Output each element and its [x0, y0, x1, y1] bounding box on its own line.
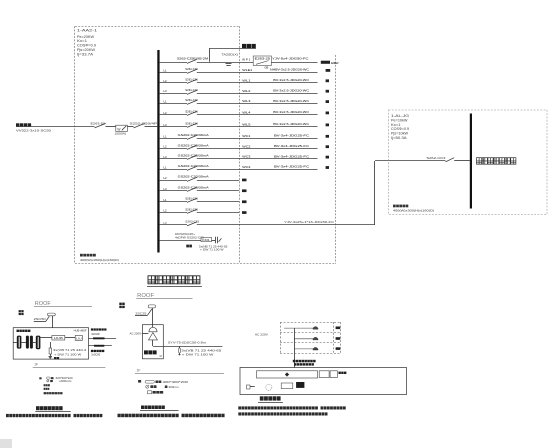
- svg-text:HUB+MDF: HUB+MDF: [74, 328, 87, 332]
- svg-text:12.3kW: 12.3kW: [331, 61, 339, 65]
- circuit row WC3: [160, 154, 329, 160]
- svg-text:Ij=33.7A: Ij=33.7A: [77, 52, 94, 56]
- svg-text:S261-C16: S261-C16: [185, 67, 198, 71]
- circuit row spare@180: [160, 175, 247, 182]
- svg-text:Ij=50.3A: Ij=50.3A: [391, 136, 407, 140]
- landscape busbar: [470, 114, 472, 209]
- camera 3: [294, 347, 340, 350]
- wire modules to HUB: [40, 337, 52, 339]
- svg-text:3xSC80: 3xSC80: [91, 352, 100, 356]
- subscriber tap: [179, 346, 181, 348]
- svg-text:S252-C50/4P: S252-C50/4P: [130, 121, 158, 125]
- svg-text:3xDG80: 3xDG80: [91, 332, 100, 336]
- svg-text:4xDFW GS202-C25: 4xDFW GS202-C25: [175, 235, 204, 239]
- svg-text:L2: L2: [164, 145, 168, 149]
- note C line2: [238, 412, 327, 415]
- dashed circle device: [266, 384, 272, 390]
- svg-text:BV-3x4-JDG25-FC: BV-3x4-JDG25-FC: [274, 134, 310, 138]
- svg-text:WC2: WC2: [242, 144, 251, 148]
- svg-text:S261-C16: S261-C16: [185, 197, 198, 201]
- svg-text:L1: L1: [164, 166, 168, 170]
- label 电话电缆: [91, 350, 104, 352]
- svg-text:L3: L3: [164, 89, 168, 93]
- svg-text:TA25D(X): TA25D(X): [222, 53, 239, 57]
- circuit row WC1: [160, 133, 329, 140]
- svg-text:••300mm: ••300mm: [59, 380, 72, 383]
- svg-text:COSΦ=0.9: COSΦ=0.9: [77, 44, 96, 48]
- svg-text:L1: L1: [164, 68, 168, 72]
- svg-text:BV-3x4-JDG25-FC: BV-3x4-JDG25-FC: [274, 144, 310, 148]
- corner artifact: [0, 439, 12, 448]
- svg-text:AC 220V: AC 220V: [130, 332, 142, 336]
- label 电话配线箱: [17, 330, 31, 332]
- svg-text:GS202-C20/30mA: GS202-C20/30mA: [178, 186, 210, 190]
- svg-text:GS202-C20/30mA: GS202-C20/30mA: [178, 175, 210, 179]
- svg-text:WLE1: WLE1: [242, 68, 252, 72]
- svg-text:BV-3x2.5-JDG20-WC: BV-3x2.5-JDG20-WC: [273, 122, 310, 126]
- svg-text:COSΦ=0.9: COSΦ=0.9: [391, 127, 409, 131]
- module link wires: [14, 342, 17, 344]
- svg-text:+ DW 71 100 W: + DW 71 100 W: [200, 248, 224, 252]
- svg-text:WC1: WC1: [242, 134, 251, 138]
- ground: [50, 354, 52, 357]
- splitter dome: [149, 327, 157, 332]
- wire YJV-4x25 feeder: [197, 224, 375, 226]
- svg-text:L3: L3: [164, 221, 168, 225]
- svg-text:WL1: WL1: [242, 78, 251, 82]
- svg-text:SYV-75-(5)SC50-0.8m: SYV-75-(5)SC50-0.8m: [168, 341, 207, 345]
- svg-text:300*400*200: 300*400*200: [163, 380, 189, 384]
- label 显示器: [339, 372, 347, 374]
- title 监控系统图: [260, 396, 281, 400]
- svg-text:Pjs=20KW: Pjs=20KW: [77, 48, 96, 52]
- svg-text:S261-C16: S261-C16: [185, 88, 198, 92]
- capacitor compensation branch: [160, 232, 228, 252]
- main busbar: [157, 50, 159, 253]
- DVR rack: [257, 371, 318, 378]
- label 由景观绿化设计: [477, 158, 516, 165]
- svg-text:WL4: WL4: [242, 111, 251, 115]
- circuit row WL4: [160, 110, 329, 116]
- svg-text:E263-25: E263-25: [255, 57, 271, 61]
- label 电度表 (energy meter): [242, 44, 256, 48]
- svg-text:S262-CK3: S262-CK3: [426, 156, 445, 160]
- note A: [6, 414, 71, 417]
- amplifier: [149, 333, 158, 340]
- landscape panel 1-AL-JG dashed enclosure: [389, 110, 548, 215]
- MDF terminal modules: [17, 336, 41, 350]
- incoming supply wire: [16, 126, 95, 128]
- svg-text:M: M: [160, 355, 162, 358]
- svg-text:L2: L2: [164, 111, 168, 115]
- label 前端箱: [144, 350, 157, 354]
- LIU: [75, 336, 82, 341]
- svg-text:L1: L1: [164, 134, 168, 138]
- label 电源进线 (incoming supply): [16, 123, 31, 126]
- outgoing data line: [89, 338, 117, 340]
- legend B: [138, 380, 188, 394]
- svg-text:L1: L1: [164, 198, 168, 202]
- antenna mast: [152, 308, 154, 325]
- legend A: [39, 377, 73, 394]
- telephone cabinet box: [13, 328, 88, 359]
- kWh meter connection line: [210, 48, 257, 50]
- svg-text:S263-C25E/XB-2M: S263-C25E/XB-2M: [177, 57, 208, 61]
- title 有线电视系统图: [141, 406, 165, 410]
- svg-text:VV022-3x10-SC50: VV022-3x10-SC50: [16, 129, 52, 133]
- svg-text:2SC50: 2SC50: [34, 317, 47, 321]
- switch S262-CK3: [446, 158, 455, 162]
- svg-text:E263-50: E263-50: [91, 121, 106, 125]
- camera trunk riser: [294, 328, 296, 367]
- svg-text:WL5: WL5: [242, 123, 251, 127]
- camera zone dashed box: [280, 322, 341, 354]
- svg-text:WC4: WC4: [242, 165, 251, 169]
- monitor 2: [330, 371, 337, 378]
- outgoing phone line: [89, 345, 112, 347]
- switch S252-C50/4P: [134, 123, 145, 128]
- main distribution panel 1-AA2-1 dashed enclosure: [75, 26, 336, 264]
- wire to landscape busbar: [454, 160, 470, 162]
- svg-text:KM1: KM1: [202, 239, 211, 242]
- CATV output wire: [152, 340, 154, 346]
- circuit row WP2 landscape feeder: [160, 161, 446, 226]
- svg-text:L2: L2: [164, 79, 168, 83]
- svg-text:BV-3x4-JDG25-FC: BV-3x4-JDG25-FC: [274, 154, 310, 158]
- cable bundle label: [293, 360, 316, 363]
- svg-text:Kx=1: Kx=1: [77, 39, 87, 43]
- svg-text:LIU: LIU: [76, 337, 82, 340]
- incoming conduit symbol: [48, 313, 56, 316]
- svg-text:L3: L3: [164, 155, 168, 159]
- svg-text:BV-3x2.5-JDG20-WC: BV-3x2.5-JDG20-WC: [273, 88, 310, 92]
- svg-text:+ DW 71 100 W: + DW 71 100 W: [182, 352, 214, 356]
- monitor 1: [319, 371, 329, 378]
- title 配电系统示意图: [148, 276, 200, 284]
- note B: [118, 414, 179, 418]
- circuit row WL1: [160, 77, 329, 83]
- svg-text:1F: 1F: [137, 368, 141, 372]
- svg-text:S261-C16: S261-C16: [185, 207, 198, 211]
- svg-text:1-AL-JG: 1-AL-JG: [391, 114, 410, 118]
- svg-text:GS202-C20/30mA: GS202-C20/30mA: [178, 133, 210, 137]
- panel mounting label: [80, 254, 96, 257]
- kWh meter: [116, 125, 128, 131]
- antenna label: [119, 303, 124, 305]
- svg-text:YJV-5x4-JDG50-FC: YJV-5x4-JDG50-FC: [272, 56, 310, 60]
- svg-text:1F: 1F: [34, 363, 38, 367]
- circuit row spare@212.6: [160, 207, 247, 214]
- panel info label 1-AA2-1: [77, 29, 97, 57]
- keyboard box: [281, 383, 293, 389]
- control console box: [240, 368, 407, 395]
- svg-text:GS202-C20/30mA: GS202-C20/30mA: [178, 143, 210, 147]
- svg-text:S261-C16: S261-C16: [185, 122, 198, 126]
- switch S263-C63: [187, 222, 197, 226]
- panel info label 1-AL-JG: [391, 114, 410, 140]
- capacitor C: [215, 237, 217, 243]
- svg-text:S261-C16: S261-C16: [185, 110, 198, 114]
- wire riser to AL-JG: [374, 161, 376, 225]
- svg-text:+ DW 71 100 W: + DW 71 100 W: [54, 353, 81, 357]
- svg-text:3x(VB 71 25 440-4: 3x(VB 71 25 440-4: [53, 348, 87, 352]
- HUB: [52, 336, 65, 341]
- svg-text:BV-3x2.5-JDG20-WC: BV-3x2.5-JDG20-WC: [273, 110, 310, 114]
- svg-text:L2: L2: [164, 209, 168, 213]
- svg-text:Pe=10kW: Pe=10kW: [391, 118, 408, 122]
- svg-text:GB: GB: [265, 65, 269, 69]
- camera 2: [294, 337, 340, 340]
- svg-text:400(W)x300(H)x(160(D): 400(W)x300(H)x(160(D): [393, 209, 434, 213]
- svg-text:L3: L3: [164, 187, 168, 191]
- telecom incoming label: [19, 310, 24, 312]
- circuit row WL5: [160, 122, 329, 128]
- svg-text:Pe=20KW: Pe=20KW: [77, 35, 95, 39]
- circuit row WL2: [160, 88, 329, 95]
- CT symbol on WP1 wire: [226, 63, 232, 65]
- svg-text:300mm: 300mm: [169, 385, 179, 389]
- svg-text:1-AA2-1: 1-AA2-1: [77, 29, 97, 33]
- svg-text:10(50A): 10(50A): [115, 131, 127, 135]
- note C line1: [238, 406, 318, 409]
- svg-text:S261-C16: S261-C16: [185, 77, 198, 81]
- svg-text:HUB: HUB: [54, 336, 63, 340]
- wire HUB to LIU: [65, 337, 75, 339]
- circuit row spare@201.8: [160, 197, 247, 204]
- svg-text:AC 220V: AC 220V: [255, 333, 268, 337]
- svg-text:YJV-4x25+1*16-JDG50-FC: YJV-4x25+1*16-JDG50-FC: [284, 220, 335, 224]
- dark device: [296, 382, 304, 388]
- circuit row WC4: [160, 164, 329, 170]
- switch E263-50: [95, 123, 106, 128]
- circuit row spare@190.8: [160, 186, 247, 193]
- svg-text:WL2: WL2: [242, 89, 251, 93]
- svg-text:BV-3x2.5-JDG20-WC: BV-3x2.5-JDG20-WC: [273, 99, 310, 103]
- circuit row WL3: [160, 98, 329, 104]
- camera 1: [284, 327, 340, 330]
- circuit row WLE1: [160, 67, 331, 73]
- surge arrester branch: [50, 342, 52, 348]
- svg-text:BV-3x2.5-JDG20-WC: BV-3x2.5-JDG20-WC: [273, 78, 310, 82]
- plug symbol: [247, 385, 251, 389]
- svg-text:WL3: WL3: [242, 99, 251, 103]
- panel mounting label: [393, 205, 408, 208]
- svg-text:WC3: WC3: [242, 155, 251, 159]
- svg-text:BV-3x4-JDG25-FC: BV-3x4-JDG25-FC: [274, 165, 310, 169]
- svg-text:S263-C63: S263-C63: [185, 220, 199, 224]
- svg-text:400(W)x300(H)x(160(D): 400(W)x300(H)x(160(D): [80, 258, 119, 262]
- antenna symbol: [148, 305, 155, 308]
- circuit row WP1: [160, 56, 339, 69]
- svg-text:2SC25: 2SC25: [135, 311, 147, 315]
- svg-text:L1: L1: [164, 100, 168, 104]
- svg-text:NHBV-3x2.5-JDG20-WC: NHBV-3x2.5-JDG20-WC: [270, 68, 310, 72]
- label 电容: [186, 245, 192, 248]
- svg-text:S261-C16: S261-C16: [185, 98, 198, 102]
- headend box: [142, 325, 163, 359]
- svg-text:GS202-C20/30mA: GS202-C20/30mA: [178, 154, 210, 158]
- svg-text:L2: L2: [164, 176, 168, 180]
- svg-text:L3: L3: [164, 123, 168, 127]
- contactor box: [201, 237, 212, 241]
- svg-text:GS202-C20/30mA: GS202-C20/30mA: [178, 164, 210, 168]
- label 2根网线和2根: [91, 328, 107, 330]
- title 综合布线系统图: [36, 406, 63, 410]
- circuit row WC2: [160, 143, 329, 149]
- svg-text:Pjs=10kW: Pjs=10kW: [391, 132, 409, 136]
- svg-text:Kx=1: Kx=1: [391, 123, 401, 127]
- svg-text:WP1: WP1: [242, 58, 250, 62]
- riser into cabinet: [52, 316, 54, 328]
